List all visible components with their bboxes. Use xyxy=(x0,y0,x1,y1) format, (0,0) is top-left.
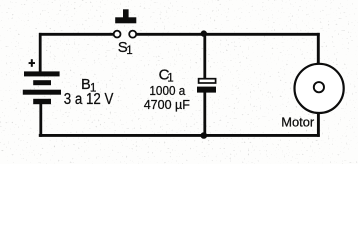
motor body xyxy=(295,64,344,113)
node junction top xyxy=(201,30,207,36)
wire right rail lower (motor to bottom rail) xyxy=(317,112,320,137)
motor shaft xyxy=(314,82,324,92)
contact left xyxy=(114,31,121,38)
svg-text:1: 1 xyxy=(126,45,132,57)
plate 1 long xyxy=(24,71,60,76)
plate 3 long xyxy=(23,90,61,95)
capacitor C1 xyxy=(197,79,216,93)
plate 2 short xyxy=(33,80,51,85)
plus sign xyxy=(29,62,35,64)
wire top rail right segment xyxy=(137,33,320,36)
wire capacitor branch upper xyxy=(203,34,206,79)
svg-text:Motor: Motor xyxy=(281,114,315,129)
wire bottom rail xyxy=(39,134,320,137)
plunger stem xyxy=(123,9,129,17)
svg-text:4700 µF: 4700 µF xyxy=(144,97,190,112)
contact right xyxy=(129,31,136,38)
wire top rail left segment xyxy=(39,33,114,36)
wire left rail upper (top corner to battery +) xyxy=(39,33,42,73)
wire left rail lower (battery - to bottom rail) xyxy=(39,103,42,137)
svg-text:1000 a: 1000 a xyxy=(149,83,186,98)
plate top (hollow, +) xyxy=(199,79,216,83)
plunger cap xyxy=(115,17,136,23)
node junction bottom xyxy=(201,132,208,139)
plate 4 short xyxy=(33,99,51,104)
wire right rail upper (top corner to motor) xyxy=(317,33,320,64)
svg-text:3 a 12 V: 3 a 12 V xyxy=(64,91,114,108)
wire capacitor branch lower xyxy=(203,93,206,136)
motor M1 xyxy=(295,64,344,113)
switch S1 pushbutton xyxy=(114,9,137,37)
plate bottom (solid, -) xyxy=(197,87,216,93)
battery B1 xyxy=(23,59,61,104)
